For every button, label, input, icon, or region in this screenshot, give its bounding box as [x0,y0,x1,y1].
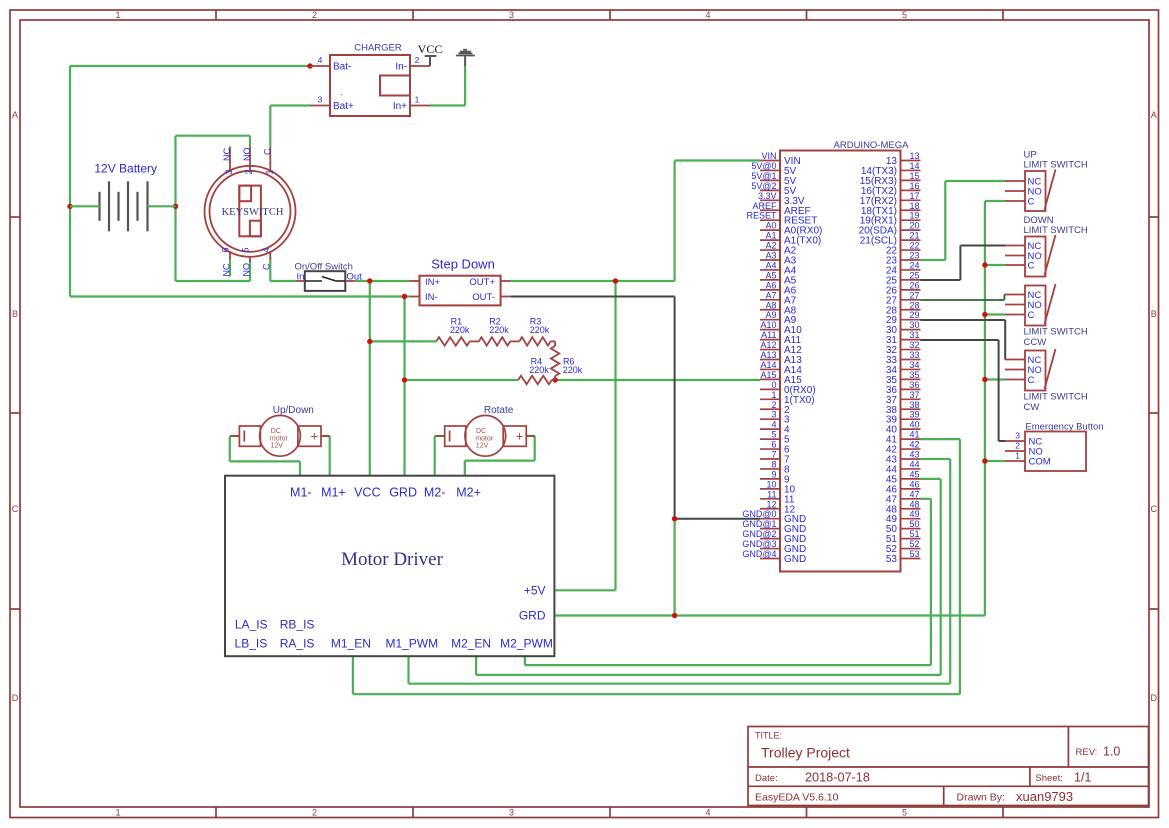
arduino left pin A12 [760,340,802,356]
arduino right pin 51 [886,529,921,545]
svg-text:41: 41 [909,430,919,440]
svg-text:3: 3 [1015,431,1020,441]
svg-text:16: 16 [909,181,919,191]
svg-text:1: 1 [115,10,120,20]
svg-text:220k: 220k [529,365,549,375]
svg-text:12V: 12V [476,443,489,450]
arduino right pin 43 [886,450,921,466]
svg-text:51: 51 [909,529,919,539]
arduino right pin 53 [886,549,921,565]
svg-text:4: 4 [318,55,323,65]
svg-text:0: 0 [771,380,776,390]
svg-text:9: 9 [771,469,776,479]
wire On/Off Out to Step Down IN+ [355,280,410,282]
svg-text:C: C [1151,504,1158,514]
arduino left pin A10 [760,320,802,336]
svg-text:M2_EN: M2_EN [451,637,491,651]
arduino right pin 31 [886,330,921,346]
svg-text:+: + [516,429,524,444]
arduino left pin A14 [760,360,802,376]
step down pin OUT+ [501,280,511,282]
svg-text:5: 5 [902,10,907,20]
wire DOWN limit switch C [985,264,1005,266]
wire On/Off Out down to R1 and motor driver VCC [370,281,436,476]
svg-text:LA_IS: LA_IS [235,618,268,632]
svg-text:RB_IS: RB_IS [280,618,315,632]
keyswitch pin 2 NO top [242,147,254,175]
svg-text:220k: 220k [530,325,550,335]
svg-text:CW: CW [1024,402,1040,413]
on/off switch pin Out [345,280,355,282]
wire R4 rail / A15 net [405,379,761,381]
svg-text:31: 31 [909,330,919,340]
arduino right pin 33 [886,350,921,366]
arduino left pin RESET [746,211,817,227]
svg-text:Step Down: Step Down [431,257,495,272]
svg-text:46: 46 [909,479,919,489]
svg-text:3: 3 [509,808,514,818]
wire motor driver +5V [554,589,615,591]
motor driver module U3 [225,476,554,657]
svg-text:220k: 220k [450,325,470,335]
svg-text:+5V: +5V [524,584,546,598]
svg-text:M1_EN: M1_EN [331,637,371,651]
svg-text:CHARGER: CHARGER [354,43,402,54]
svg-text:CCW: CCW [1024,337,1047,348]
wire arduino pin 31 to emergency button NC [921,340,1006,441]
svg-text:3: 3 [771,410,776,420]
svg-text:VIN: VIN [761,151,776,161]
VCC net symbol [418,42,443,66]
svg-text:OUT+: OUT+ [469,277,495,288]
svg-text:2: 2 [312,808,317,818]
svg-text:10: 10 [766,479,776,489]
svg-text:M2-: M2- [424,486,446,500]
arduino right pin 47 [886,489,921,505]
arduino left pin 5 [760,430,790,446]
svg-text:A9: A9 [765,310,776,320]
svg-text:52: 52 [909,539,919,549]
svg-text:RESET: RESET [746,211,777,221]
wire keyswitch NC bottom stub [229,258,231,277]
arduino left pin GND@1 [742,519,806,535]
resistor R6 220k vertical [551,341,583,380]
svg-text:LIMIT SWITCH: LIMIT SWITCH [1024,392,1088,403]
svg-text:AREF: AREF [752,201,777,211]
arduino left pin 10 [760,479,796,495]
svg-text:1: 1 [115,808,120,818]
svg-text:IN+: IN+ [425,277,441,288]
arduino right pin 28 [886,300,921,316]
svg-text:A0: A0 [765,221,776,231]
svg-text:+: + [311,429,319,444]
svg-text:M2_PWM: M2_PWM [500,637,553,651]
wire CW limit switch C [985,378,1005,380]
charger pin 1 In+ [393,95,430,113]
svg-text:5V@0: 5V@0 [751,161,776,171]
junction CCW C [982,312,987,317]
svg-text:GND: GND [784,554,806,565]
svg-text:53: 53 [886,554,898,565]
svg-text:A1: A1 [765,231,776,241]
svg-text:GND@1: GND@1 [742,519,776,529]
svg-text:VCC: VCC [418,42,443,56]
arduino right pin 49 [886,509,921,525]
svg-text:5: 5 [902,808,907,818]
svg-text:3: 3 [509,10,514,20]
svg-text:Bat-: Bat- [333,62,351,73]
on/off switch pin In [296,280,305,282]
svg-text:B: B [12,309,18,319]
junction CW C [982,377,987,382]
svg-text:5V@2: 5V@2 [751,181,776,191]
wire arduino pin 25 to DOWN limit switch NC [921,246,1006,281]
wire battery negative net (Bat- to left rail) [70,66,310,297]
keyswitch pin 6 NC bottom [221,247,232,276]
arduino left pin 3.3V [758,191,805,207]
svg-text:Bat+: Bat+ [333,101,354,112]
dc motor M1 Up/Down [231,405,330,456]
arduino left pin A13 [760,350,802,366]
wire M1_EN to arduino pin 41 [353,439,960,694]
wire motor1 right terminal to M1+ [321,436,330,476]
svg-text:34: 34 [909,360,919,370]
arduino left pin 8 [760,459,790,475]
svg-text:33: 33 [909,350,919,360]
wire motor2 right terminal to M2+ [465,436,535,476]
arduino right pin 27 [886,290,921,306]
junction emergency COM [982,458,987,463]
svg-text:13: 13 [909,151,919,161]
keyswitch SW1 [205,166,296,257]
arduino left pin 5V@1 [751,171,796,187]
arduino left pin A1 [760,231,821,247]
svg-text:DC: DC [476,428,486,435]
arduino left pin 7 [760,450,790,466]
svg-text:GRD: GRD [389,486,417,500]
arduino left pin 11 [760,489,795,505]
arduino left pin A6 [760,280,797,296]
svg-text:xuan9793: xuan9793 [1016,789,1073,804]
junction Bat- pin [307,63,312,68]
svg-text:C: C [1028,310,1035,321]
step down pin IN+ [410,280,420,282]
arduino left pin GND@4 [742,549,806,565]
arduino left pin 0 [760,380,816,396]
charger module CHARGER [330,43,410,117]
arduino left pin AREF [752,201,810,217]
svg-text:2018-07-18: 2018-07-18 [805,771,870,785]
svg-text:8: 8 [771,459,776,469]
svg-text:40: 40 [909,420,919,430]
wire left rail to Step Down IN- [70,295,410,297]
svg-text:5: 5 [771,430,776,440]
title text Sheet [1035,771,1091,785]
svg-text:24: 24 [909,260,919,270]
svg-text:6: 6 [221,247,231,252]
wire motor driver GRD rail [554,614,985,616]
junction R4 rail left [402,377,407,382]
svg-text:OUT-: OUT- [472,292,495,303]
junction GND@0 [672,516,677,521]
svg-text:A15: A15 [760,370,776,380]
svg-text:28: 28 [909,300,919,310]
svg-text:220k: 220k [563,365,583,375]
arduino left pin A8 [760,300,797,316]
arduino left pin A3 [760,251,797,267]
svg-text:1/1: 1/1 [1074,771,1091,785]
svg-text:43: 43 [909,450,919,460]
svg-text:A8: A8 [765,300,776,310]
svg-text:A: A [12,110,18,120]
title text TITLE: Trolley Project [755,731,850,761]
svg-text:47: 47 [909,489,919,499]
svg-text:M1-: M1- [290,486,312,500]
emergency button pin 1 COM [1005,451,1051,468]
arduino right pin 29 [886,310,921,326]
keyswitch pin 5 NO bottom [241,247,252,276]
svg-text:6: 6 [771,440,776,450]
arduino right pin 42 [886,440,921,456]
arduino right pin 13 [886,151,921,167]
svg-text:GRD: GRD [519,609,546,623]
svg-text:2: 2 [312,10,317,20]
svg-text:220k: 220k [489,325,509,335]
svg-text:IN-: IN- [425,292,438,303]
svg-text:42: 42 [909,440,919,450]
svg-text:3.3V: 3.3V [758,191,777,201]
svg-text:12V Battery: 12V Battery [94,162,157,176]
emergency button pin 2 NO [1005,441,1043,458]
wire M2_PWM to arduino pin 47 [525,499,931,665]
battery B1 12V [70,162,176,232]
arduino left pin GND@2 [742,529,806,545]
arduino left pin A4 [760,260,797,276]
svg-text:53: 53 [909,549,919,559]
svg-text:RA_IS: RA_IS [280,637,315,651]
svg-text:LIMIT SWITCH: LIMIT SWITCH [1024,327,1088,338]
arduino right pin 50 [886,519,921,535]
svg-text:C: C [1028,375,1035,386]
keyswitch pin 3 NC top [222,147,234,175]
svg-text:NC: NC [222,148,232,161]
svg-text:motor: motor [270,435,289,442]
svg-text:5V@1: 5V@1 [751,171,776,181]
arduino right pin 48 [886,499,921,515]
arduino right pin 30 [886,320,921,336]
svg-text:LB_IS: LB_IS [235,637,268,651]
arduino right pin 18 [861,201,921,217]
svg-text:14: 14 [909,161,919,171]
arduino left pin A7 [760,290,797,306]
svg-text:TITLE:: TITLE: [755,731,782,741]
arduino left pin 3 [760,410,790,426]
svg-text:45: 45 [909,469,919,479]
svg-text:motor: motor [475,435,494,442]
arduino right pin 24 [886,260,921,276]
svg-text:3: 3 [224,169,234,174]
junction DOWN C [982,262,987,267]
junction IN- rail [402,294,407,299]
wire motor2 left terminal to M2- [435,436,445,476]
svg-text:C: C [12,504,19,514]
svg-text:A3: A3 [765,251,776,261]
svg-text:Up/Down: Up/Down [273,405,314,416]
svg-text:1: 1 [264,169,274,174]
arduino right pin 40 [886,420,921,436]
svg-text:C: C [262,263,272,270]
svg-text:B: B [1151,309,1157,319]
arduino right pin 35 [886,370,921,386]
svg-text:7: 7 [771,450,776,460]
junction OUT+ +5V tap [613,278,618,283]
svg-text:2: 2 [415,55,420,65]
wire emergency button COM [985,460,1005,462]
arduino right pin 39 [886,410,921,426]
keyswitch pin 1 C top [262,147,274,175]
svg-text:A14: A14 [760,360,776,370]
svg-text:11: 11 [767,489,776,499]
arduino left pin VIN [760,151,801,167]
svg-text:12: 12 [766,499,776,509]
step down pin OUT- [501,296,511,298]
arduino right pin 25 [886,270,921,286]
wire OUT- black to GND@0 [511,297,760,519]
emergency button S5 [1025,422,1104,472]
arduino right pin 14 [861,161,921,177]
svg-text:Trolley Project: Trolley Project [761,745,850,761]
arduino left pin 5V@0 [751,161,796,177]
svg-text:GND@4: GND@4 [742,549,776,559]
junction battery minus [67,204,72,209]
arduino left pin 9 [760,469,790,485]
wire GND junction down to GRD rail [673,519,675,616]
svg-text:Motor Driver: Motor Driver [341,549,444,570]
svg-text:50: 50 [909,519,919,529]
svg-text:In+: In+ [393,101,407,112]
svg-text:23: 23 [909,251,919,261]
svg-text:M1_PWM: M1_PWM [385,637,438,651]
resistor R1 220k [436,317,470,346]
title text REV: 1.0 [1076,745,1121,759]
svg-text:26: 26 [909,280,919,290]
arduino left pin 2 [760,400,790,416]
svg-text:2: 2 [1015,441,1020,451]
charger pin 2 In- [395,55,430,73]
arduino left pin 4 [760,420,790,436]
junction R1 tap [367,339,372,344]
svg-text:19: 19 [909,211,919,221]
svg-text:COM: COM [1029,457,1051,468]
svg-text:EasyEDA V5.6.10: EasyEDA V5.6.10 [755,792,839,804]
svg-text:A11: A11 [761,330,776,340]
emergency button pin 3 NC [1005,431,1042,448]
svg-text:A4: A4 [765,260,776,270]
svg-text:4: 4 [705,10,710,20]
limit switch CCW S3 [1025,284,1056,326]
resistor R4 220k [518,357,555,385]
svg-text:A7: A7 [765,290,776,300]
arduino left pin 5V@2 [751,181,796,197]
charger pin 4 Bat- [310,55,351,73]
arduino right pin 52 [886,539,921,555]
arduino right pin 38 [886,400,921,416]
svg-text:LIMIT SWITCH: LIMIT SWITCH [1024,160,1088,171]
svg-text:.: . [340,87,343,97]
svg-text:Date:: Date: [755,773,778,784]
arduino left pin 1 [760,390,815,406]
wire OUT+ to VIN and +5V vertical [511,161,760,591]
limit switch CW S4 [1025,349,1056,391]
arduino left pin 6 [760,440,790,456]
arduino right pin 17 [860,191,921,207]
svg-text:VCC: VCC [354,486,380,500]
arduino right pin 16 [861,181,921,197]
svg-text:27: 27 [909,290,919,300]
step down converter U2 [420,257,501,306]
title text EasyEDA version [755,792,839,804]
arduino left pin GND@0 [742,509,806,525]
svg-text:C: C [1028,261,1035,272]
wire charger In+ to ground [430,66,465,106]
svg-text:Rotate: Rotate [484,405,514,416]
arduino left pin A2 [760,241,797,257]
dc motor M2 Rotate [436,405,535,456]
charger pin 3 Bat+ [310,95,354,113]
wire CCW limit switch C [985,313,1005,315]
svg-text:20: 20 [909,221,919,231]
svg-text:ARDUINO-MEGA: ARDUINO-MEGA [834,140,910,151]
wire arduino pin 23 to UP limit switch NC [921,181,1006,260]
arduino left pin 12 [760,499,796,515]
svg-text:NC: NC [221,263,231,276]
svg-text:M1+: M1+ [321,486,346,500]
svg-text:A5: A5 [765,270,776,280]
svg-text:44: 44 [909,459,919,469]
svg-text:D: D [1151,693,1158,703]
svg-text:2: 2 [244,169,254,174]
resistor R2 220k [470,317,510,346]
svg-text:1.0: 1.0 [1103,745,1120,759]
svg-text:A6: A6 [765,280,776,290]
wire charger Bat+ to keyswitch C top [270,106,310,147]
arduino left pin A5 [760,270,797,286]
svg-text:48: 48 [909,499,919,509]
junction R4/R6 [552,377,557,382]
svg-text:29: 29 [909,310,919,320]
wire battery+ to keyswitch NO top [176,136,251,147]
junction On/Off Out [367,278,372,283]
svg-text:1: 1 [415,95,420,105]
svg-text:12V: 12V [271,443,284,450]
svg-text:35: 35 [909,370,919,380]
arduino right pin 23 [886,251,921,267]
wire limit switch common vertical [985,201,1005,616]
svg-text:39: 39 [909,410,919,420]
wire M2_EN to arduino pin 45 [476,479,941,675]
wire battery positive vertical [174,136,176,281]
svg-text:NO: NO [242,148,252,162]
arduino right pin 26 [886,280,921,296]
svg-text:5: 5 [241,247,251,252]
svg-text:22: 22 [909,241,919,251]
junction GRD rail [672,613,677,618]
arduino mega U1 [780,140,909,572]
arduino right pin 21 [860,231,921,247]
wire battery+ to keyswitch NO bottom [176,261,251,281]
arduino right pin 20 [859,221,921,237]
svg-text:1: 1 [771,390,776,400]
